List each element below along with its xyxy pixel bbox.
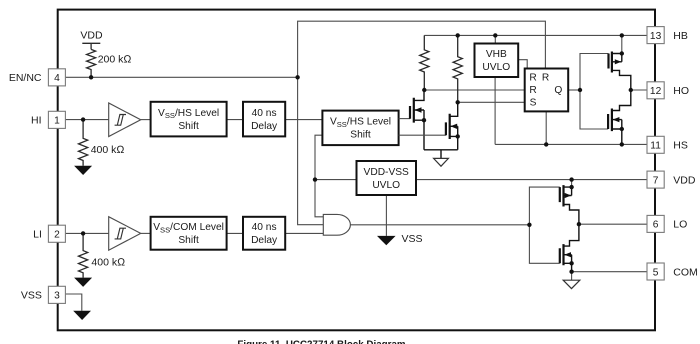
svg-text:7: 7 (653, 175, 659, 186)
outer IC boundary box (58, 10, 655, 331)
svg-text:Q: Q (554, 85, 562, 96)
svg-text:EN/NC: EN/NC (9, 72, 42, 84)
svg-text:COM: COM (673, 266, 698, 278)
VDD supply symbol (80, 29, 103, 49)
pin 4 EN/NC (48, 69, 65, 86)
schmitt buffer on HI (109, 103, 141, 137)
wire latch Q output (568, 89, 580, 91)
pin 7 VDD (647, 171, 664, 188)
svg-text:VDD: VDD (80, 29, 103, 41)
wire COM rail to pin 5 (572, 271, 647, 273)
box VDD-VSS UVLO (357, 161, 417, 195)
wire VDD rail from UVLO to pin 7 (416, 179, 647, 181)
resistor pull-up R2 to HB rail (453, 35, 462, 102)
schmitt buffer on LI (109, 217, 141, 251)
wire R line from M1 drain to latch R input (424, 89, 524, 91)
wire HI pin1 to schmitt (65, 119, 108, 121)
pin 13 HB (647, 27, 664, 44)
svg-text:1: 1 (54, 116, 60, 127)
ground below LI resistor (74, 278, 92, 287)
wire AND gate output to LO driver input (350, 224, 529, 226)
ground at VSS pin3 (73, 311, 91, 320)
svg-text:HS: HS (673, 140, 688, 152)
svg-text:400 kΩ: 400 kΩ (91, 257, 125, 269)
AND gate (323, 214, 350, 235)
svg-text:VSS: VSS (402, 233, 423, 245)
svg-text:VDD: VDD (673, 174, 696, 186)
svg-text:40 ns: 40 ns (252, 108, 277, 119)
wire HO node to pin 12 (631, 89, 647, 91)
wire VHB UVLO bottom to HS rail (494, 77, 496, 144)
pin 2 LI (48, 225, 65, 242)
pin 1 HI (48, 111, 65, 128)
wire schmitt2 to VSS/COM level shift (141, 232, 151, 234)
wire VSS pin3 to ground (65, 294, 81, 311)
svg-text:R: R (529, 73, 536, 84)
svg-text:UVLO: UVLO (482, 62, 510, 73)
svg-text:5: 5 (653, 267, 659, 278)
wire HS rail to pin 11 (495, 143, 647, 145)
svg-text:13: 13 (650, 31, 662, 42)
transistor low-side PMOS pull-up (560, 180, 579, 225)
wire VDD-VSS UVLO left pin (315, 179, 357, 181)
box VSS/COM Level Shift (151, 217, 227, 250)
transistor high-side NMOS pull-down (608, 90, 631, 144)
wire HB rail to pin 13 (424, 34, 647, 36)
wire HO driver gate feed vertical (580, 54, 609, 130)
wire EN vertical net: up-over to latch R2 and down to AND input (298, 21, 546, 225)
wire delay 2 to AND gate (285, 232, 323, 234)
transistor high-side PMOS pull-up (609, 35, 631, 90)
svg-text:12: 12 (650, 86, 662, 97)
wire UVLO node down to AND gate top input (315, 180, 323, 217)
svg-text:4: 4 (54, 73, 60, 84)
svg-text:LI: LI (33, 229, 42, 241)
ground below HI resistor (74, 166, 92, 175)
svg-text:R: R (529, 85, 536, 96)
pin name labels left (9, 72, 42, 302)
svg-text:Delay: Delay (251, 121, 278, 132)
svg-text:6: 6 (653, 220, 659, 231)
svg-text:HI: HI (31, 115, 42, 127)
transistor M2 level-shift NMOS (399, 102, 458, 150)
svg-text:Shift: Shift (178, 235, 199, 246)
floating ground below LO driver (563, 272, 580, 289)
svg-text:VHB: VHB (486, 49, 507, 60)
pin 3 VSS (48, 286, 65, 303)
wire delay 1 to level shift 2 (285, 119, 322, 121)
wire VHB UVLO top stub to HB rail (494, 35, 496, 43)
wire level shift 1 to delay 1 (227, 119, 243, 121)
box VSS/HS Level Shift 1 (151, 102, 227, 137)
svg-text:2: 2 (54, 230, 60, 241)
svg-text:HO: HO (673, 85, 689, 97)
svg-text:R: R (542, 73, 549, 84)
svg-text:S: S (530, 98, 537, 109)
svg-text:HB: HB (673, 30, 688, 42)
svg-text:Shift: Shift (178, 121, 199, 132)
box 40 ns Delay 1 (243, 102, 285, 137)
svg-text:40 ns: 40 ns (252, 222, 277, 233)
box 40 ns Delay 2 (243, 217, 285, 250)
wire VSS/COM level shift to delay 2 (227, 232, 243, 234)
pin 12 HO (647, 82, 664, 99)
svg-text:VDD-VSS: VDD-VSS (364, 167, 409, 178)
resistor 400 kOhm on HI (79, 120, 125, 166)
wire LO node to pin 6 (579, 223, 647, 225)
wire latch bottom to HS rail (545, 111, 547, 144)
resistor 400 kOhm on LI (79, 233, 126, 277)
box VHB UVLO (475, 44, 519, 78)
RS latch U1 (525, 69, 569, 112)
wire LI pin2 to schmitt2 (66, 232, 109, 234)
transistor M1 level-shift NMOS (399, 90, 424, 150)
pin 5 COM (647, 263, 664, 280)
svg-text:LO: LO (673, 219, 687, 231)
wire S line from M2 drain to latch S input (458, 101, 525, 103)
svg-text:VSS: VSS (21, 290, 42, 302)
svg-text:3: 3 (54, 291, 60, 302)
box VSS/HS Level Shift 2 (322, 111, 398, 146)
pin name labels right (673, 30, 698, 278)
pin 11 HS (647, 136, 664, 153)
wire LO driver gate feed vertical (529, 187, 559, 263)
wire level shift 2 enable from UVLO node (315, 135, 322, 179)
wire VDD-VSS UVLO bottom to VSS ground (385, 195, 387, 236)
svg-text:Delay: Delay (251, 235, 278, 246)
resistor pull-up R1 to HB rail (420, 35, 429, 90)
svg-text:Shift: Shift (350, 130, 371, 141)
resistor 200 kOhm pull-up (87, 49, 132, 77)
VSS ground below VDD-VSS UVLO (377, 233, 423, 246)
svg-text:400 kΩ: 400 kΩ (91, 144, 125, 156)
pin 6 LO (647, 215, 664, 232)
floating ground below level-shift MOSFETs (424, 150, 458, 166)
wire schmitt1 to level shift 1 (141, 119, 151, 121)
transistor low-side NMOS pull-down (560, 224, 579, 272)
svg-text:UVLO: UVLO (372, 180, 400, 191)
wire EN/NC pin4 to junction (65, 76, 297, 78)
svg-text:Figure 11. UCC27714 Block Diag: Figure 11. UCC27714 Block Diagram (237, 339, 406, 344)
svg-text:11: 11 (650, 141, 661, 152)
wire VHB UVLO output to latch R1 top input (518, 60, 527, 69)
svg-text:200 kΩ: 200 kΩ (98, 53, 132, 65)
